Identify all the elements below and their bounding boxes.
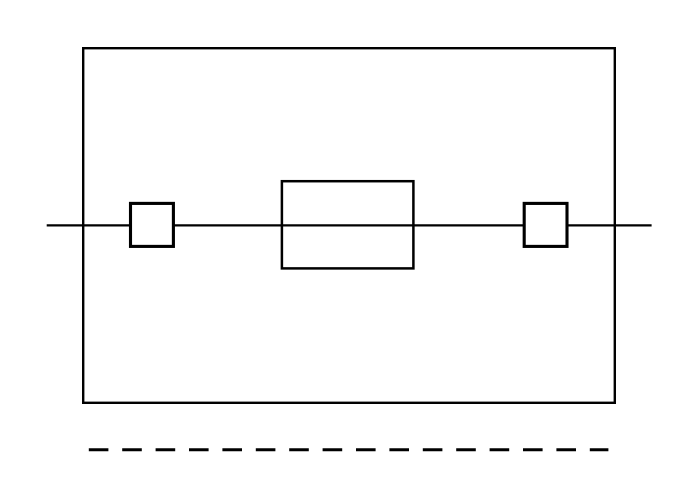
- left clamp contact: [131, 203, 174, 246]
- right clamp contact: [524, 203, 567, 246]
- dashed mounting-rail line: [89, 448, 609, 451]
- wire (through conductor): [47, 224, 652, 226]
- fuse F1: [282, 181, 414, 268]
- terminal block housing outline: [83, 48, 615, 403]
